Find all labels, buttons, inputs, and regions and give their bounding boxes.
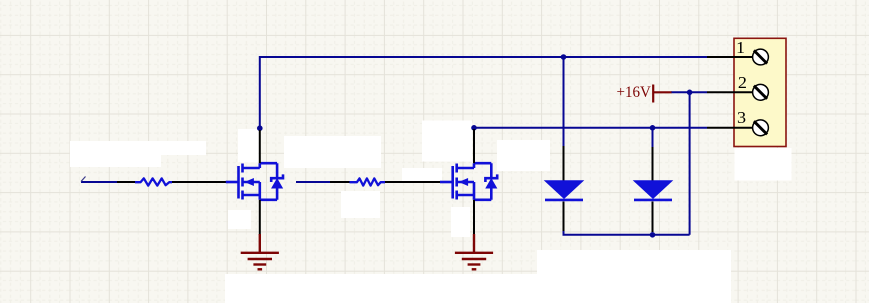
pin: Q2 source black lead bbox=[473, 200, 475, 235]
diode D2 bbox=[634, 181, 672, 200]
white mask rect left of diode D1 bbox=[497, 140, 550, 171]
pin 2 black lead bbox=[707, 91, 753, 93]
pin: black lead from R1 to Q1 gate bbox=[172, 181, 226, 183]
white mask rect bottom right block bbox=[537, 250, 731, 293]
transistor Q2 (N-MOSFET with body diode) bbox=[440, 163, 497, 200]
wire: left gate wire entering schematic bbox=[81, 181, 118, 183]
node junction dot at Q2 drain branch bbox=[471, 125, 477, 131]
wire: vertical from top bus down to D1 anode bbox=[563, 57, 565, 147]
connector P1 screw terminal 3 bbox=[753, 120, 769, 136]
pin: D1 cathode black lead bbox=[563, 202, 565, 232]
pin: black lead left of resistor R2 bbox=[330, 181, 350, 183]
wire: vertical drop at x=259.8 from top bus to Q1 drain bbox=[259, 56, 261, 128]
pin: black lead left of resistor R1 bbox=[117, 181, 136, 183]
pin: black lead from R2 to Q2 gate bbox=[385, 181, 441, 183]
node junction dot at D2 anode branch bbox=[650, 125, 656, 131]
white mask rect near Q1 source bbox=[228, 210, 251, 229]
diode D1 bbox=[545, 181, 583, 200]
wire: +16V rail to connector pin 2 bbox=[671, 91, 707, 93]
wire: +16V vertical drop to bottom bus bbox=[689, 92, 691, 235]
white mask rect bottom strip bbox=[225, 274, 731, 303]
wire: tiny diagonal stub at left wire end bbox=[81, 177, 86, 182]
pin: Q2 drain black lead bbox=[473, 129, 475, 163]
connector P1 screw terminal 2 bbox=[753, 84, 769, 100]
white mask rect over erased designator above Q1 bbox=[238, 129, 259, 163]
ground symbol under Q1 bbox=[241, 234, 279, 269]
pin: Q1 drain black lead bbox=[259, 130, 261, 163]
svg-text:3: 3 bbox=[737, 109, 746, 127]
white mask rect over erased designator text left of Q1 bbox=[70, 141, 206, 167]
svg-text:2: 2 bbox=[738, 74, 747, 92]
pin: Q1 source black lead bbox=[259, 200, 261, 235]
pin: D2 anode black lead bbox=[652, 147, 654, 181]
node junction dot on bottom bus under D2 bbox=[650, 232, 656, 238]
connector P1 screw terminal 1 bbox=[753, 49, 769, 65]
white mask rect below mid resistor bbox=[341, 191, 380, 218]
resistor R2 inline squiggle bbox=[350, 178, 386, 185]
white mask rect below connector P1 bbox=[735, 148, 792, 181]
ground symbol under Q2 bbox=[455, 234, 493, 269]
connector P1 body bbox=[734, 38, 786, 146]
node junction dot above Q1 drain bbox=[257, 125, 263, 131]
white mask rect near Q2 source bbox=[451, 207, 470, 237]
wire: bus from Q2 drain to connector pin 3 bbox=[474, 127, 707, 129]
resistor R1 inline squiggle bbox=[135, 178, 172, 185]
pin: D1 anode black lead bbox=[563, 146, 565, 181]
wire: bottom bus connecting D1 and D2 cathodes to +16V drop bbox=[564, 230, 690, 235]
pin 3 black lead bbox=[707, 127, 753, 129]
wire: navy stub right of Q1 body diode bbox=[296, 181, 330, 183]
white mask rect over erased component between Q1 and Q2 bbox=[284, 136, 381, 168]
wire: vertical from pin3 bus down to D2 anode bbox=[652, 128, 654, 148]
white mask rect over erased text left of Q2 bbox=[402, 168, 442, 183]
svg-text:+16V: +16V bbox=[617, 83, 652, 101]
pin: D2 cathode black lead bbox=[652, 202, 654, 233]
power port +16V bar symbol bbox=[653, 85, 671, 103]
wire: top bus from Q1 drain to connector pin 1 bbox=[260, 56, 707, 58]
transistor Q1 (N-MOSFET with body diode) bbox=[226, 163, 283, 200]
white mask rect over erased designator above Q2 bbox=[422, 121, 472, 162]
pin 1 black lead bbox=[707, 56, 753, 58]
wire: node junction dot on top bus above D1 bbox=[561, 54, 567, 60]
svg-text:1: 1 bbox=[736, 39, 745, 57]
node junction dot on +16V rail bbox=[687, 90, 693, 96]
